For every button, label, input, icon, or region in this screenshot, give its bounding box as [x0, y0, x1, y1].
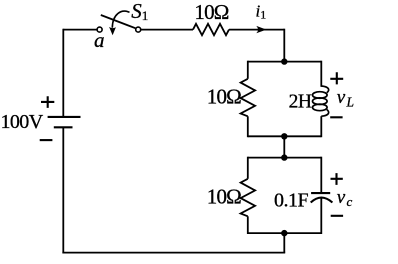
wire section1 left vertical upper — [247, 61, 249, 79]
wire resistor R1 to corner — [229, 29, 284, 31]
wire top-left horizontal — [63, 29, 97, 31]
battery minus sign — [40, 139, 53, 141]
wire bottom-right vertical — [283, 233, 285, 253]
svg-text:100V: 100V — [1, 111, 44, 133]
capacitor C1 0.1F top plate — [311, 192, 330, 194]
svg-text:a: a — [94, 28, 105, 52]
wire section2 right vertical lower — [320, 198, 322, 235]
voltage source V1 100V battery top plate — [48, 116, 81, 118]
wire section1 top — [248, 61, 321, 63]
wire switch to resistor R1 — [141, 29, 193, 31]
switch closing arrow arc — [112, 11, 129, 28]
wire section1 left vertical lower — [247, 116, 249, 137]
wire section2 left vertical lower — [247, 216, 249, 234]
wire section1 right vertical lower — [320, 116, 322, 137]
svg-text:10Ω: 10Ω — [207, 185, 241, 209]
wire section2 top — [248, 157, 321, 159]
switch S1 right contact — [136, 27, 141, 32]
resistor R3 10ohm vertical — [241, 179, 256, 217]
wire section1 bottom — [248, 135, 321, 137]
resistor R1 10ohm top — [193, 24, 229, 35]
wire section2 bottom — [248, 232, 321, 234]
wire section2 left vertical upper — [247, 157, 249, 179]
minus sign vc — [331, 215, 343, 217]
voltage source V1 100V battery bottom plate — [54, 126, 73, 128]
switch closing arrowhead — [109, 27, 116, 35]
switch S1 blade — [101, 15, 136, 28]
wire node B to node C connector — [283, 136, 285, 157]
svg-text:0.1F: 0.1F — [274, 189, 309, 211]
inductor L1 2H coil — [313, 86, 329, 116]
capacitor C1 0.1F bottom curved plate — [311, 198, 333, 203]
node B junction dot — [281, 133, 287, 139]
minus sign vL — [330, 116, 342, 118]
node C junction dot — [281, 154, 287, 160]
svg-text:10Ω: 10Ω — [194, 0, 228, 24]
wire section1 right vertical upper — [320, 61, 322, 87]
resistor R2 10ohm vertical — [241, 79, 256, 117]
svg-text:2H: 2H — [289, 91, 312, 112]
plus sign vc — [331, 173, 343, 185]
wire section2 right vertical upper — [320, 157, 322, 193]
wire bottom rail — [62, 252, 285, 254]
node D junction dot — [281, 230, 287, 236]
node A junction dot — [281, 58, 287, 64]
current arrow i1 — [256, 26, 266, 33]
wire left vertical upper — [62, 29, 64, 117]
wire left vertical lower — [62, 127, 64, 253]
svg-text:10Ω: 10Ω — [207, 84, 241, 108]
plus sign vL — [330, 72, 343, 84]
wire corner vertical down to node A — [283, 29, 285, 62]
switch S1 left contact — [97, 27, 102, 32]
battery plus sign — [41, 96, 54, 108]
